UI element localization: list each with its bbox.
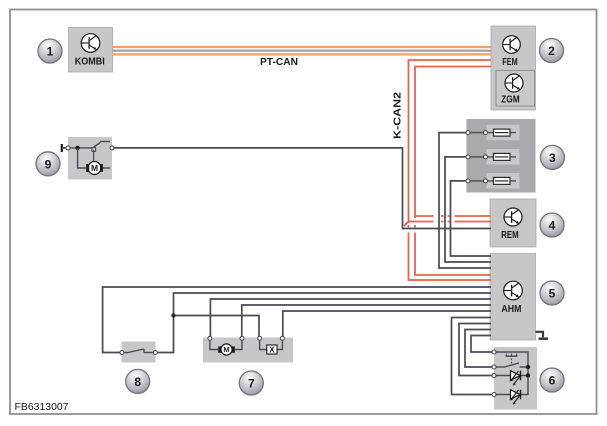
junction tick on K-CAN2 branch xyxy=(404,221,409,226)
junction dot in box 9 xyxy=(75,146,79,150)
wire inside box 9 to switch xyxy=(68,147,92,149)
fuse slot 3 background xyxy=(487,173,520,189)
junction dot right bus row3 xyxy=(526,373,530,377)
callout ball 5 xyxy=(540,281,564,305)
fuse 1 wires and symbol xyxy=(466,129,516,136)
svg-text:5: 5 xyxy=(549,287,556,301)
wire D: AHM to actuator box 7 terminal 2 xyxy=(242,305,491,338)
terminal circle box 9 left xyxy=(66,146,70,150)
fuse slot 2 background xyxy=(487,149,520,165)
ECU icon KOMBI xyxy=(81,34,100,53)
wire A: AHM to switch box 8 left xyxy=(103,287,491,353)
terminal circle box 9 right xyxy=(110,146,114,150)
svg-text:M: M xyxy=(223,345,229,354)
wire K-CAN2 red line outer (FEM to AHM) xyxy=(409,60,492,223)
fuse carrier box 3 xyxy=(467,119,536,193)
callout ball 4 xyxy=(540,213,564,237)
callout ball 2 xyxy=(540,39,564,63)
svg-text:9: 9 xyxy=(45,157,52,171)
thermal switch row terminal2 xyxy=(494,363,528,367)
ECU icon ZGM xyxy=(505,74,523,92)
svg-text:X: X xyxy=(269,345,275,354)
control unit box AHM xyxy=(490,254,536,341)
svg-text:M: M xyxy=(91,163,98,173)
fuse 2 wires and symbol xyxy=(466,153,516,160)
wire terminal3 to X element xyxy=(260,339,267,350)
wire K-CAN2 branch to REM lower xyxy=(409,221,434,223)
svg-text:4: 4 xyxy=(549,219,556,233)
X element in box 7 xyxy=(267,345,277,354)
wire K-CAN2 outer lower segment xyxy=(409,233,492,281)
wire K-CAN2 red line inner (FEM to AHM) xyxy=(415,67,491,219)
wire motor to terminal2 xyxy=(235,339,242,350)
svg-text:1: 1 xyxy=(47,45,54,59)
wire PT-CAN bus orange upper xyxy=(113,46,492,48)
wire K-CAN2 inner lower segment xyxy=(415,233,491,276)
junction dot right bus row2 xyxy=(526,365,530,369)
motor M in box 9 xyxy=(86,162,103,175)
wire terminal1 to motor xyxy=(210,339,218,350)
wire X element to terminal4 xyxy=(277,339,282,350)
switch moving contact square in box 9 xyxy=(92,148,96,152)
ECU icon FEM xyxy=(503,36,521,54)
callout ball 6 xyxy=(540,368,564,392)
terminal bar left of box 9 xyxy=(61,144,63,152)
link from switch to motor in box 9 xyxy=(93,150,95,161)
svg-text:AHM: AHM xyxy=(501,304,521,315)
fuse slot 1 background xyxy=(487,125,520,141)
svg-text:2: 2 xyxy=(548,44,555,58)
svg-text:6: 6 xyxy=(549,374,556,388)
switch box 8 xyxy=(122,342,156,363)
ECU icon REM xyxy=(504,208,522,226)
wire branch from B to actuator box 7 terminal 3 xyxy=(174,316,260,339)
LED diode row terminal3 xyxy=(494,371,528,386)
wire fuse 1 to AHM xyxy=(439,133,491,268)
wire PT-CAN bus orange lower xyxy=(113,53,492,55)
wire from motor unit 9 to REM xyxy=(114,148,491,229)
svg-text:KOMBI: KOMBI xyxy=(75,57,105,68)
wire K-CAN2 inner dotted crossing xyxy=(414,225,416,228)
wire AHM to socket terminal 1 xyxy=(471,336,494,353)
svg-text:7: 7 xyxy=(248,377,255,391)
terminal circles box 6 xyxy=(492,350,496,354)
LED diode row terminal4 xyxy=(494,390,528,405)
terminal circles box 7 xyxy=(208,336,212,340)
wire junction to motor left brush xyxy=(78,148,86,168)
svg-text:FB6313007: FB6313007 xyxy=(15,402,69,413)
callout ball 3 xyxy=(540,145,564,169)
wire AHM to socket terminal 4 xyxy=(452,318,495,395)
svg-text:8: 8 xyxy=(134,375,141,389)
wire PT-CAN bus gray middle xyxy=(113,50,492,52)
control unit box FEM xyxy=(491,26,536,110)
switch fixed contact in box 9 xyxy=(100,141,110,143)
callout ball 1 xyxy=(38,39,62,63)
switch blade in box 9 xyxy=(94,143,101,148)
callout ball 8 xyxy=(126,369,150,393)
motor M in box 7 xyxy=(218,344,235,355)
actuator box 7 xyxy=(203,338,293,363)
wire K-CAN2 branch to REM upper xyxy=(415,215,434,217)
callout ball 7 xyxy=(239,371,263,395)
wire motor right brush stub xyxy=(103,167,110,169)
fuse 3 wires and symbol xyxy=(466,177,516,184)
control unit box REM xyxy=(490,199,536,247)
junction dot on wire B xyxy=(171,313,175,317)
wire fuse 2 to AHM xyxy=(445,157,491,262)
callout ball 9 xyxy=(36,152,60,176)
control unit box KOMBI xyxy=(69,27,113,72)
ECU icon AHM xyxy=(504,281,523,300)
wire fuse 3 to AHM xyxy=(451,181,492,256)
svg-text:FEM: FEM xyxy=(502,57,518,68)
svg-text:ZGM: ZGM xyxy=(501,94,520,105)
svg-text:PT-CAN: PT-CAN xyxy=(260,57,298,68)
trailer socket box 6 xyxy=(494,347,537,410)
wire K-CAN2 outer dotted crossing xyxy=(408,225,410,228)
wire C: AHM to actuator box 7 terminal 1 xyxy=(210,299,491,338)
wire E: AHM to actuator box 7 terminal 4 xyxy=(283,311,491,338)
wire B: switch box 8 right to AHM xyxy=(156,293,492,353)
motor unit box 9 xyxy=(68,137,112,180)
wire terminal to box 9 xyxy=(62,147,68,149)
heating element symbol xyxy=(506,354,518,365)
wire AHM to socket terminal 2 xyxy=(465,330,494,368)
control unit box ZGM (nested in FEM) xyxy=(496,71,535,107)
wire AHM to socket terminal 3 xyxy=(459,324,494,376)
svg-text:K-CAN2: K-CAN2 xyxy=(393,91,404,139)
wire terminal1 across top to right bus xyxy=(494,352,528,395)
connector bracket right of AHM xyxy=(536,332,549,339)
svg-text:REM: REM xyxy=(501,230,519,241)
switch symbol in box 8 xyxy=(120,349,157,355)
svg-text:3: 3 xyxy=(549,151,556,165)
